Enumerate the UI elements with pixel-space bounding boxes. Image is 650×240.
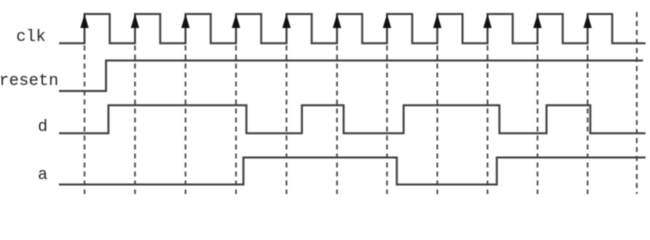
svg-text:d: d bbox=[38, 117, 48, 136]
clk rising-edge arrowhead 1 bbox=[80, 14, 88, 28]
wire: clk waveform bbox=[59, 14, 646, 43]
clk rising-edge arrowhead 6 bbox=[333, 14, 341, 28]
clk rising-edge arrowhead 3 bbox=[181, 14, 189, 28]
clock-edge dashed line t12 (final, full height) bbox=[636, 12, 638, 194]
clock-edge dashed line t9 bbox=[487, 46, 489, 195]
clock-edge dashed line t7 bbox=[386, 46, 388, 195]
wire: resetn waveform bbox=[59, 61, 643, 92]
svg-text:resetn: resetn bbox=[0, 71, 59, 90]
wire: a waveform bbox=[59, 158, 646, 185]
wire: d waveform bbox=[59, 105, 646, 133]
clock-edge dashed line t11 bbox=[587, 46, 589, 195]
clock-edge dashed line t3 bbox=[185, 46, 187, 195]
clock-edge dashed line t6 bbox=[336, 46, 338, 195]
clk rising-edge arrowhead 9 bbox=[483, 14, 491, 28]
svg-text:a: a bbox=[38, 165, 48, 184]
clk rising-edge arrowhead 2 bbox=[131, 14, 139, 28]
clock-edge dashed line t1 bbox=[84, 46, 86, 195]
clk rising-edge arrowhead 11 bbox=[583, 14, 591, 28]
clk rising-edge arrowhead 5 bbox=[282, 14, 290, 28]
clk rising-edge arrowhead 8 bbox=[433, 14, 441, 28]
svg-text:clk: clk bbox=[16, 27, 46, 46]
clk rising-edge arrowhead 7 bbox=[383, 14, 391, 28]
clock-edge dashed line t8 bbox=[436, 46, 438, 195]
clock-edge dashed line t4 bbox=[235, 46, 237, 195]
clock-edge dashed line t2 bbox=[134, 46, 136, 195]
clock-edge dashed line t10 bbox=[537, 46, 539, 195]
clock-edge dashed line t5 bbox=[286, 46, 288, 195]
clk rising-edge arrowhead 10 bbox=[533, 14, 541, 28]
clk rising-edge arrowhead 4 bbox=[232, 14, 240, 28]
